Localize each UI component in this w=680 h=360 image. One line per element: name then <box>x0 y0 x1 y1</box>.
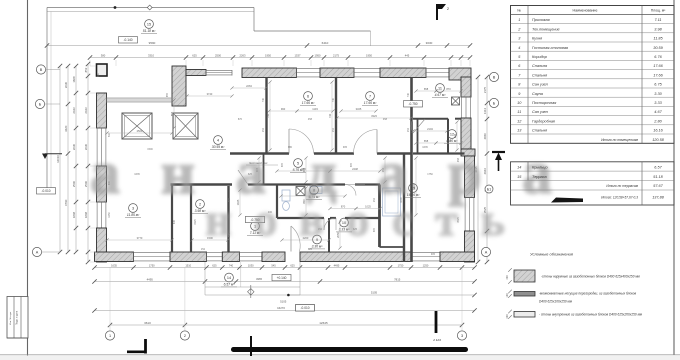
svg-text:625: 625 <box>192 53 197 57</box>
wall hall1|wc8 <box>276 185 278 219</box>
svg-text:870: 870 <box>238 118 243 121</box>
svg-text:-0.010: -0.010 <box>41 189 50 193</box>
svg-text:3.30: 3.30 <box>654 92 662 96</box>
svg-text:458: 458 <box>383 118 388 121</box>
svg-text:2104: 2104 <box>427 127 433 131</box>
wall niche|tech2 <box>190 185 192 252</box>
svg-text:2443: 2443 <box>72 107 76 114</box>
svg-text:2263: 2263 <box>246 84 252 88</box>
svg-text:658: 658 <box>424 87 429 91</box>
bottom wall seg 3 <box>222 252 239 262</box>
svg-text:3610: 3610 <box>144 321 151 325</box>
svg-text:625: 625 <box>212 263 217 267</box>
svg-text:380: 380 <box>101 53 106 57</box>
svg-text:Крыльцо: Крыльцо <box>532 166 548 170</box>
right dim chains <box>477 77 479 262</box>
svg-text:6.57: 6.57 <box>654 166 662 170</box>
svg-text:3325: 3325 <box>356 107 362 111</box>
svg-text:3663: 3663 <box>412 183 416 189</box>
svg-text:3420: 3420 <box>64 125 68 132</box>
wall kitchen row top <box>171 183 233 185</box>
svg-text:Спальня: Спальня <box>532 64 547 68</box>
svg-text:Постирочная: Постирочная <box>532 101 556 105</box>
wall bed7|wc11 and bed13 <box>410 78 413 263</box>
room 14 porch <box>225 273 234 282</box>
svg-text:1635: 1635 <box>111 263 117 267</box>
room 13 bedroom <box>409 184 418 193</box>
left level arrow <box>42 154 48 160</box>
svg-text:6: 6 <box>307 94 309 98</box>
room 11 wc <box>436 84 445 93</box>
svg-text:852: 852 <box>84 67 88 72</box>
wc <box>282 190 290 201</box>
sheet bottom border <box>0 354 680 356</box>
svg-text:D400 625х100х250 мм: D400 625х100х250 мм <box>539 300 573 304</box>
legend item 1 outer walls <box>514 270 535 282</box>
room 3 kitchen <box>129 204 138 213</box>
svg-text:152: 152 <box>407 127 410 132</box>
bottom wall seg 6 <box>440 252 475 262</box>
svg-text:510: 510 <box>108 132 111 137</box>
svg-text:870: 870 <box>446 87 451 91</box>
svg-text:16270: 16270 <box>277 306 285 310</box>
top wall segment B <box>320 68 354 78</box>
right wall block 4 <box>465 231 475 262</box>
svg-text:4.67: 4.67 <box>654 110 662 114</box>
svg-text:В: В <box>40 68 43 72</box>
svg-text:Спальня: Спальня <box>532 129 547 133</box>
room 10 laundry <box>340 218 349 227</box>
svg-text:7.11: 7.11 <box>654 18 661 22</box>
svg-text:2500: 2500 <box>84 180 88 187</box>
svg-text:1: 1 <box>109 334 111 338</box>
svg-text:2500: 2500 <box>137 129 143 133</box>
bottom wall seg 1 <box>95 252 134 262</box>
svg-text:Сауна: Сауна <box>532 92 543 96</box>
svg-text:855: 855 <box>170 111 174 116</box>
svg-text:7: 7 <box>369 94 371 98</box>
svg-text:2630: 2630 <box>72 143 76 150</box>
room 12 wardrobe <box>448 130 457 139</box>
legend item 2 partitions <box>514 292 535 297</box>
svg-text:Наименование: Наименование <box>573 9 598 13</box>
crossed box window <box>173 113 198 139</box>
dim 5105 <box>288 294 474 296</box>
sink <box>310 187 322 194</box>
svg-text:2963: 2963 <box>483 168 487 175</box>
black L mark bottom-left <box>144 339 147 354</box>
svg-text:3: 3 <box>461 334 463 338</box>
black wedge annotation <box>551 198 583 203</box>
svg-text:4: 4 <box>518 46 520 50</box>
svg-text:Кухня: Кухня <box>532 37 542 41</box>
svg-text:57.67: 57.67 <box>653 184 663 188</box>
svg-text:2448: 2448 <box>352 167 358 171</box>
top dim chain small <box>90 57 470 59</box>
svg-text:740: 740 <box>407 92 410 97</box>
svg-text:Инв. № подл.: Инв. № подл. <box>9 311 12 325</box>
wall laundry block right <box>378 185 381 248</box>
svg-text:658: 658 <box>424 139 429 143</box>
terrace column <box>97 64 108 76</box>
svg-text:14: 14 <box>227 276 231 280</box>
wall sauna9|laundry10 <box>328 218 330 252</box>
svg-text:17.66 м²: 17.66 м² <box>364 101 377 105</box>
svg-text:-межкомнатные несущие перегоро: -межкомнатные несущие перегородки, из га… <box>539 292 637 296</box>
svg-text:Сан узел: Сан узел <box>532 110 549 114</box>
top dim chain 9590/6410/3030 <box>47 45 470 47</box>
wall wc8 bottom <box>277 217 324 219</box>
svg-text:1537: 1537 <box>295 53 301 57</box>
svg-text:3: 3 <box>132 206 134 210</box>
axis circles left <box>36 65 45 74</box>
svg-text:3770: 3770 <box>137 236 143 240</box>
svg-text:3743: 3743 <box>207 92 213 96</box>
svg-text:2860: 2860 <box>483 133 487 140</box>
wall hall upper <box>263 154 265 185</box>
right wall jog <box>461 149 475 156</box>
svg-text:1313: 1313 <box>483 107 487 114</box>
mark 2123 <box>435 311 438 333</box>
left wall block 1 <box>97 93 107 128</box>
wall living|bed6 <box>265 78 267 154</box>
wall tech2|hall1 <box>227 186 229 252</box>
svg-text:Гардеробная: Гардеробная <box>532 119 555 123</box>
top-right corner wall <box>449 68 471 80</box>
svg-text:51.18 м²: 51.18 м² <box>143 29 156 33</box>
svg-text:2443: 2443 <box>84 107 88 114</box>
left wall block 3 <box>97 228 107 262</box>
svg-text:905: 905 <box>431 253 436 256</box>
bottom dim chain 2 <box>95 281 475 283</box>
svg-text:2500: 2500 <box>215 53 221 57</box>
svg-text:1500: 1500 <box>147 148 153 151</box>
svg-text:17.66: 17.66 <box>653 64 663 68</box>
svg-text:2050: 2050 <box>336 232 340 238</box>
svg-text:5105: 5105 <box>280 300 287 304</box>
svg-text:Подп. и дата: Подп. и дата <box>16 310 19 325</box>
svg-text:6410: 6410 <box>322 41 329 45</box>
room 2 tech <box>196 200 205 209</box>
svg-text:51.18: 51.18 <box>653 175 663 179</box>
svg-text:1750: 1750 <box>398 263 404 267</box>
svg-text:4: 4 <box>217 138 219 142</box>
svg-text:625: 625 <box>308 248 313 251</box>
svg-text:Итого по помещениям: Итого по помещениям <box>601 138 639 142</box>
svg-text:2175: 2175 <box>333 53 339 57</box>
left wall block 2 <box>97 166 107 202</box>
svg-text:740: 740 <box>266 113 270 118</box>
svg-text:1868: 1868 <box>72 76 76 83</box>
svg-text:1103: 1103 <box>312 107 318 111</box>
vent shaft 2 <box>452 97 460 105</box>
svg-text:Условные обозначения: Условные обозначения <box>530 252 574 257</box>
svg-text:100: 100 <box>506 293 509 298</box>
svg-text:4495: 4495 <box>334 263 340 267</box>
wall pier top-left T <box>172 66 186 106</box>
svg-text:3323: 3323 <box>371 114 377 118</box>
svg-text:11: 11 <box>517 110 521 114</box>
svg-text:30.59 м²: 30.59 м² <box>212 145 225 149</box>
svg-text:1510: 1510 <box>185 263 191 267</box>
svg-text:3.98: 3.98 <box>654 27 662 31</box>
wall kitchen|niche <box>171 185 173 252</box>
wall hall|bed13 <box>403 154 405 263</box>
svg-text:№: № <box>517 9 521 13</box>
svg-text:2630: 2630 <box>64 81 68 88</box>
svg-text:120.58: 120.58 <box>652 138 665 142</box>
svg-text:625: 625 <box>290 263 295 267</box>
svg-text:905: 905 <box>302 167 306 172</box>
svg-text:152: 152 <box>332 127 335 132</box>
svg-text:1925: 1925 <box>194 219 197 225</box>
svg-text:137,88: 137,88 <box>652 196 665 200</box>
svg-text:458: 458 <box>308 118 313 121</box>
svg-text:11.85: 11.85 <box>653 37 663 41</box>
svg-text:+0.140: +0.140 <box>277 276 287 280</box>
svg-text:1250: 1250 <box>108 212 111 218</box>
left dim chains <box>59 66 61 252</box>
svg-text:200: 200 <box>506 314 509 319</box>
svg-text:980: 980 <box>288 146 293 149</box>
svg-text:644: 644 <box>453 133 457 138</box>
svg-text:2263: 2263 <box>240 53 246 57</box>
svg-text:740: 740 <box>229 263 234 267</box>
svg-text:1950: 1950 <box>366 53 372 57</box>
room 8 wc <box>310 186 319 195</box>
svg-text:А: А <box>485 250 488 254</box>
svg-text:Итого по террасам: Итого по террасам <box>606 184 638 188</box>
svg-text:2630: 2630 <box>84 143 88 150</box>
bath <box>383 188 401 216</box>
svg-text:3310: 3310 <box>148 53 154 57</box>
right wall block 2 <box>461 118 471 149</box>
svg-text:3030: 3030 <box>426 41 433 45</box>
svg-text:380: 380 <box>97 72 100 77</box>
svg-text:А: А <box>36 250 39 254</box>
svg-text:-0.750: -0.750 <box>408 102 417 106</box>
room 7 bedroom <box>366 92 375 101</box>
section mark bottom <box>250 336 252 356</box>
svg-text:Гостиная-столовая: Гостиная-столовая <box>532 46 568 50</box>
svg-text:152: 152 <box>373 197 376 202</box>
svg-text:1750: 1750 <box>149 263 155 267</box>
svg-text:6.57 м²: 6.57 м² <box>224 283 236 287</box>
svg-text:12010: 12010 <box>56 155 60 163</box>
section flag top <box>436 4 438 20</box>
right wall block 3 <box>465 156 475 198</box>
svg-text:1635: 1635 <box>422 146 428 149</box>
terrace outline <box>47 7 254 9</box>
svg-text:11.85 м²: 11.85 м² <box>127 213 140 217</box>
svg-text:Коридор: Коридор <box>532 55 547 59</box>
svg-text:15: 15 <box>147 22 151 26</box>
wall arm <box>186 70 206 76</box>
room 1 hallway <box>251 222 260 231</box>
svg-text:Тех.помещение: Тех.помещение <box>532 27 560 31</box>
svg-text:905: 905 <box>343 146 348 149</box>
bottom dim chain 1 <box>95 267 475 269</box>
legend item 3 inner walls <box>514 312 535 318</box>
svg-text:Спальня: Спальня <box>532 73 547 77</box>
right wall block 1 <box>461 77 471 97</box>
svg-text:152: 152 <box>201 248 206 251</box>
level marks <box>246 216 265 222</box>
svg-text:6.76: 6.76 <box>654 55 662 59</box>
wall wardrobe closet <box>417 119 419 154</box>
svg-text:1030: 1030 <box>248 263 254 267</box>
svg-text:4495: 4495 <box>147 277 154 281</box>
svg-text:4965: 4965 <box>256 277 262 281</box>
svg-text:152: 152 <box>262 127 265 132</box>
svg-text:2.80: 2.80 <box>653 119 662 123</box>
wall wc11|wardrobe12 <box>413 118 448 120</box>
axis circles right <box>489 72 498 81</box>
svg-text:445: 445 <box>405 53 410 57</box>
door arcs <box>290 226 292 252</box>
svg-text:12645: 12645 <box>319 321 328 325</box>
bottom wall seg 4 <box>262 252 285 262</box>
svg-text:11: 11 <box>438 86 442 90</box>
svg-text:6.75: 6.75 <box>654 83 662 87</box>
room 6 bedroom <box>304 92 313 101</box>
axis circles bottom <box>105 331 114 340</box>
svg-text:9590: 9590 <box>149 41 156 45</box>
sheet right border <box>673 0 675 355</box>
svg-text:1: 1 <box>518 18 520 22</box>
svg-text:2500: 2500 <box>72 180 76 187</box>
svg-text:2 123: 2 123 <box>432 338 441 342</box>
wall wardrobe12 inner <box>447 119 449 154</box>
wall wc8 top <box>248 183 345 185</box>
svg-text:1808: 1808 <box>72 211 76 218</box>
svg-text:545: 545 <box>271 263 276 267</box>
svg-text:990: 990 <box>281 107 286 111</box>
top wall segment A <box>242 68 297 78</box>
svg-text:В: В <box>493 75 496 79</box>
svg-text:1808: 1808 <box>84 211 88 218</box>
svg-text:1950: 1950 <box>265 53 271 57</box>
svg-text:855: 855 <box>166 92 169 97</box>
level -0.140 <box>119 37 138 43</box>
room 4 living <box>214 136 223 145</box>
svg-text:905: 905 <box>350 162 353 167</box>
svg-text:740: 740 <box>262 97 265 102</box>
svg-text:Терраса: Терраса <box>532 175 547 179</box>
svg-text:400: 400 <box>506 275 509 280</box>
svg-text:Б1: Б1 <box>487 187 492 191</box>
svg-text:Площ. м²: Площ. м² <box>651 9 666 13</box>
svg-text:16.16: 16.16 <box>653 129 663 133</box>
svg-text:2: 2 <box>184 334 186 338</box>
svg-text:Прихожая: Прихожая <box>532 18 550 22</box>
svg-text:30.59: 30.59 <box>653 46 663 50</box>
dim 16270 <box>95 310 475 312</box>
svg-text:- стены внутренние из газобето: - стены внутренние из газобетонных блоко… <box>539 313 643 317</box>
svg-text:2: 2 <box>199 202 201 206</box>
svg-text:2: 2 <box>447 7 449 11</box>
svg-text:5105: 5105 <box>371 291 378 295</box>
svg-text:-0.140: -0.140 <box>123 38 132 42</box>
svg-text:1950: 1950 <box>315 53 321 57</box>
scale bar <box>231 347 468 352</box>
sheet left border <box>27 0 29 360</box>
svg-text:6790: 6790 <box>64 199 68 206</box>
svg-text:3.33: 3.33 <box>654 101 662 105</box>
svg-text:Итого: 120,58+57,67·0,3: Итого: 120,58+57,67·0,3 <box>601 196 638 200</box>
svg-text:7815: 7815 <box>394 277 401 281</box>
corridor top wall <box>230 152 289 154</box>
svg-text:645: 645 <box>173 219 176 224</box>
room 15 terrace label <box>145 20 154 29</box>
svg-text:17.66: 17.66 <box>653 73 663 77</box>
svg-text:3.30 м²: 3.30 м² <box>312 245 324 249</box>
svg-text:14: 14 <box>517 166 521 170</box>
svg-text:1750: 1750 <box>427 173 433 176</box>
axis dim row <box>110 324 462 326</box>
svg-text:740: 740 <box>332 97 335 102</box>
arrow mark near table <box>498 155 500 171</box>
room 5 corridor <box>294 159 303 168</box>
svg-text:905: 905 <box>281 162 284 167</box>
svg-text:5: 5 <box>297 161 299 165</box>
svg-text:Сан узел: Сан узел <box>532 83 549 87</box>
svg-text:2175: 2175 <box>483 86 487 93</box>
porch steps <box>204 262 206 295</box>
top wall segment C <box>380 68 426 78</box>
bottom wall seg 5 <box>300 252 411 262</box>
interior dims <box>107 132 172 134</box>
svg-text:870: 870 <box>341 205 346 209</box>
vent shaft 1 <box>296 187 305 196</box>
room 9 sauna <box>313 235 322 244</box>
svg-text:4.67 м²: 4.67 м² <box>435 93 447 97</box>
crossed box window <box>122 113 152 139</box>
svg-text:17.66 м²: 17.66 м² <box>302 101 315 105</box>
svg-text:-стены наружные из газобетонны: -стены наружные из газобетонных блоков D… <box>541 275 641 279</box>
bottom wall seg 2 <box>170 252 207 262</box>
svg-text:1250: 1250 <box>423 263 429 267</box>
wall bed6|bed7 <box>335 78 337 154</box>
title block bottom-left <box>7 297 28 339</box>
room table <box>511 6 675 144</box>
svg-text:-0.010: -0.010 <box>300 306 309 310</box>
svg-text:905: 905 <box>373 227 376 232</box>
svg-text:740: 740 <box>328 113 332 118</box>
svg-text:1635: 1635 <box>134 173 140 176</box>
